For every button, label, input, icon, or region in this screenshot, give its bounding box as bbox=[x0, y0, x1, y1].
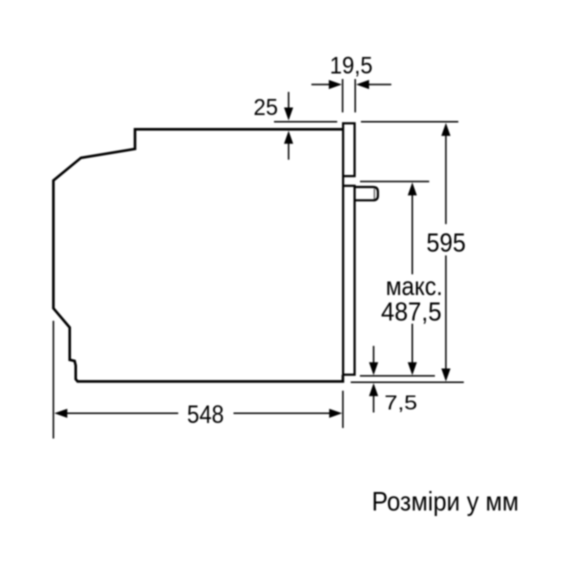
ref line max-height level bbox=[360, 181, 429, 183]
dim 595 line upper + up arrow bbox=[441, 123, 450, 224]
extension line 19,5 right bbox=[354, 79, 356, 112]
dim 25 down arrow bbox=[284, 92, 293, 121]
svg-text:25: 25 bbox=[254, 94, 279, 120]
svg-text:487,5: 487,5 bbox=[381, 296, 442, 326]
extension line 548 left bbox=[52, 321, 54, 439]
dim 487,5 line lower + down arrow bbox=[408, 324, 417, 376]
svg-text:19,5: 19,5 bbox=[330, 52, 373, 79]
dim 7,5 up arrow bbox=[369, 383, 378, 412]
dim 595 line lower + down arrow bbox=[441, 255, 450, 381]
dim 7,5 down arrow bbox=[369, 346, 378, 375]
svg-text:7,5: 7,5 bbox=[384, 392, 417, 414]
extension line 548 right bbox=[342, 391, 344, 428]
dim 548 line right + right arrow bbox=[234, 409, 343, 418]
door left edge through notch bbox=[342, 176, 344, 187]
dim 487,5 line upper + up arrow bbox=[408, 182, 417, 274]
svg-text:Розміри у мм: Розміри у мм bbox=[372, 487, 519, 517]
dim 19,5 right arrow bbox=[356, 80, 391, 89]
extension line 19,5 left bbox=[342, 79, 344, 112]
door handle hinge bump bbox=[354, 187, 378, 200]
ref line body bottom level bbox=[351, 381, 464, 383]
door upper section bbox=[343, 123, 355, 176]
dim 25 up arrow bbox=[284, 131, 293, 160]
svg-text:548: 548 bbox=[187, 401, 224, 429]
dim 19,5 left arrow bbox=[311, 80, 341, 89]
ref line top (door top level, right segment) bbox=[361, 121, 458, 123]
oven body outline bbox=[53, 129, 343, 381]
ref line door bottom level bbox=[360, 375, 435, 377]
door lower section bbox=[343, 186, 355, 375]
ref line top (door top level, left segment) bbox=[274, 121, 337, 123]
dim 548 line left + left arrow bbox=[54, 409, 178, 418]
handle cap shading line bbox=[373, 189, 375, 199]
svg-text:595: 595 bbox=[426, 230, 466, 258]
